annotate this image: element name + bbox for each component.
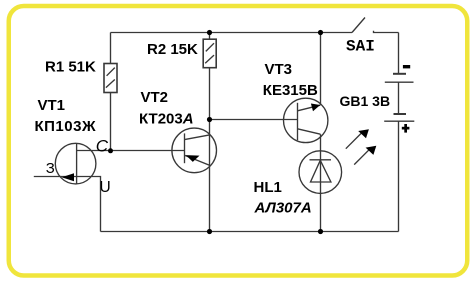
wire R1 top lead [110, 33, 112, 64]
wire VT3 emitter to top rail [320, 33, 322, 106]
wire between cells [398, 82, 400, 114]
VT2 emitter [185, 155, 210, 165]
wire R2 top dot to body [209, 33, 211, 40]
transistor VT1 circle [55, 143, 96, 184]
battery GB1 cell 2 [394, 113, 407, 115]
svg-text:HL1: HL1 [254, 179, 282, 196]
svg-text:R2 15K: R2 15K [147, 41, 198, 58]
node dot R1/VT1 drain junction [108, 148, 113, 153]
label plus sign [402, 127, 410, 130]
transistor VT2 circle [172, 128, 217, 173]
resistor R2 body [203, 39, 216, 67]
node dot VT3 emitter top [318, 30, 323, 35]
wire right rail lower [398, 121, 400, 231]
wire VT1 drain to VT2 base [77, 150, 185, 152]
node dot HL1 bottom [318, 229, 323, 234]
wire top rail [111, 32, 353, 34]
wire R2 bottom to bottom rail [209, 68, 211, 232]
svg-text:R1 51K: R1 51K [45, 58, 96, 75]
svg-text:GB1 3В: GB1 3В [340, 93, 391, 109]
VT3 emitter [298, 105, 321, 111]
VT3 base bar [297, 103, 299, 141]
svg-text:КЕ315В: КЕ315В [263, 82, 318, 99]
battery GB1 cell 1 [393, 73, 406, 75]
svg-text:З: З [46, 160, 55, 177]
node dot VT2 emitter bottom [207, 229, 212, 234]
switch SA1 lever [352, 18, 365, 33]
VT3 collector [298, 129, 321, 134]
svg-text:VT3: VT3 [265, 61, 293, 78]
wire to VT3 base [210, 119, 298, 121]
svg-text:VT2: VT2 [141, 89, 169, 106]
label minus bar [403, 65, 410, 68]
VT3 emitter arrowhead [311, 104, 320, 112]
HL1 light arrow 1 [346, 133, 362, 149]
VT2 emitter arrowhead [186, 155, 200, 162]
svg-text:SAI: SAI [346, 38, 375, 56]
VT2 collector [185, 135, 210, 140]
svg-text:КП103Ж: КП103Ж [35, 118, 97, 135]
wire R1 bottom lead [110, 93, 112, 151]
wire right rail upper [398, 33, 400, 74]
wire bottom rail [101, 231, 399, 233]
VT1 channel [76, 143, 78, 183]
VT1 gate arrowhead [62, 173, 74, 181]
svg-text:U: U [100, 179, 111, 196]
transistor VT3 circle [284, 98, 328, 142]
node dot R2 top [207, 30, 212, 35]
VT2 base bar [184, 133, 186, 163]
node dot VT2 collector / VT3 base [207, 117, 212, 122]
resistor R1 body [104, 64, 117, 93]
HL1 light arrow 2 [354, 149, 369, 164]
svg-text:VT1: VT1 [38, 97, 66, 114]
HL1 arrow 2 head [366, 146, 377, 155]
HL1 arrow 1 head [358, 129, 369, 138]
wire VT3 collector through HL1 to bottom rail [320, 134, 322, 231]
LED HL1 circle [299, 151, 342, 194]
wire switch right contact [374, 31, 399, 33]
HL1 triangle [311, 160, 331, 182]
svg-text:КТ203А: КТ203А [139, 110, 194, 127]
wire VT1 gate/source [34, 177, 101, 232]
svg-text:С: С [96, 137, 109, 156]
svg-text:АЛ307А: АЛ307А [254, 199, 312, 216]
HL1 cathode bar [310, 159, 332, 161]
